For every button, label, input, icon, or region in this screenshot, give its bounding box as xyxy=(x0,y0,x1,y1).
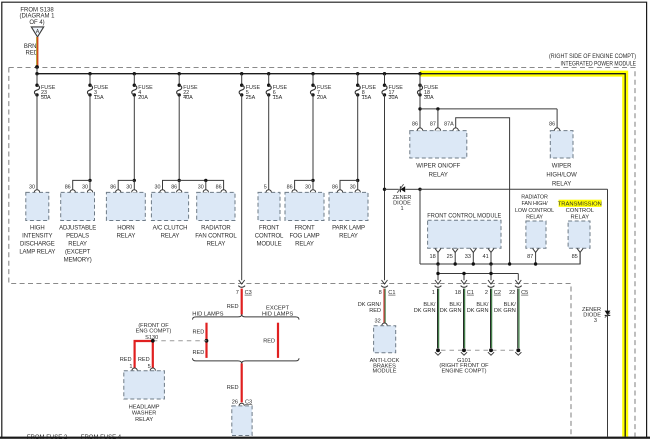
wire fuse 17 down xyxy=(384,95,386,280)
label BLK/DK GRN 2 xyxy=(440,302,462,314)
label RED (hid upper) xyxy=(192,330,204,336)
svg-text:DK GRN: DK GRN xyxy=(440,308,462,314)
wire RED except-hid branch xyxy=(277,323,279,358)
node: bus tap for fuse 4 xyxy=(133,72,136,75)
svg-text:RED: RED xyxy=(227,304,239,310)
wire to front fog lamp relay pin 30 xyxy=(312,180,314,190)
svg-text:32: 32 xyxy=(374,319,380,325)
svg-text:RELAY: RELAY xyxy=(68,241,87,247)
svg-text:(EXCEPT: (EXCEPT xyxy=(65,249,91,255)
svg-text:25A: 25A xyxy=(246,95,256,101)
front control module pin 18 xyxy=(429,248,441,264)
module: front control module xyxy=(427,213,501,249)
wire fuse 18 down to wiper on/off relay pin 86 xyxy=(419,74,421,128)
svg-text:OF 4): OF 4) xyxy=(29,20,44,26)
label zener diode 1 xyxy=(393,195,412,212)
node: bus tap for fuse 18 xyxy=(418,72,421,75)
svg-text:HID LAMPS: HID LAMPS xyxy=(262,311,293,317)
node: bus tap for fuse 8 xyxy=(356,72,359,75)
svg-text:(DIAGRAM 1: (DIAGRAM 1 xyxy=(19,14,55,20)
label FROM S138 (DIAGRAM 1 OF 4) xyxy=(19,7,55,26)
wire RED hid-lamps branch xyxy=(205,323,207,358)
label RED (bottom) xyxy=(227,385,239,391)
wire to park lamp relay pin 30 xyxy=(357,180,359,190)
bottom border line xyxy=(0,437,650,439)
svg-text:C1: C1 xyxy=(388,290,395,296)
wire BLK/DK GRN ground 1 xyxy=(437,289,438,348)
svg-text:41: 41 xyxy=(482,254,488,260)
wire branch to radiator fan control relay xyxy=(179,180,223,190)
svg-text:INTEGRATED POWER MODULE: INTEGRATED POWER MODULE xyxy=(561,60,637,67)
fuse 7 (20A) xyxy=(310,84,331,102)
node: bus1 junction at x=535.6 xyxy=(534,262,537,265)
front control module pin 25 xyxy=(447,248,459,264)
wire bus to fuse 23 xyxy=(36,74,38,86)
svg-text:RELAY: RELAY xyxy=(135,417,153,423)
svg-text:20A: 20A xyxy=(138,95,148,101)
fuse 3 (15A) xyxy=(87,84,108,102)
wire branch to adjustable pedals relay pin 86 xyxy=(73,180,90,190)
svg-text:RELAY: RELAY xyxy=(161,233,180,239)
wire bus to fuse 22 xyxy=(178,74,180,86)
wire zener line left segment xyxy=(385,188,399,190)
wire fuse 8 down xyxy=(357,95,359,180)
node: bus1 junction at x=455.2 xyxy=(454,262,457,265)
node: bus tap for fuse 6 xyxy=(267,72,270,75)
svg-text:20A: 20A xyxy=(317,95,327,101)
svg-text:FAN CONTROL: FAN CONTROL xyxy=(195,233,237,239)
wire RED to connector 26 C3 xyxy=(241,363,243,402)
wire to horn relay pin 30 xyxy=(133,180,135,190)
node: bus tap for fuse 23 xyxy=(35,72,38,75)
svg-text:C1: C1 xyxy=(467,290,474,296)
svg-text:C5: C5 xyxy=(521,290,528,296)
wire branch to park lamp relay pin 86 xyxy=(340,180,358,190)
svg-text:C3: C3 xyxy=(245,399,252,405)
node: junction fuse 18 feed at wiper row xyxy=(418,107,421,110)
svg-text:RED: RED xyxy=(138,357,150,363)
svg-text:RELAY: RELAY xyxy=(552,182,571,188)
wire RED splice to headlamp washer relay xyxy=(135,341,153,369)
fuse 4 (20A) xyxy=(132,84,153,102)
label RED (top) xyxy=(227,304,239,310)
wire zener line to fuse 18 branch xyxy=(405,188,420,190)
svg-text:25: 25 xyxy=(447,254,453,260)
svg-text:RELAY: RELAY xyxy=(295,241,314,247)
svg-text:40A: 40A xyxy=(183,95,193,101)
svg-text:CONTROL: CONTROL xyxy=(255,233,284,239)
ground symbol G101 #1 xyxy=(435,348,441,355)
wire fuse 7 down xyxy=(312,95,314,180)
wire to adjustable pedals relay pin 30 xyxy=(89,180,91,190)
svg-text:RED: RED xyxy=(192,350,204,356)
wire DK GRN/RED to anti-lock brakes module xyxy=(384,289,385,324)
svg-text:87: 87 xyxy=(430,121,436,127)
svg-text:86: 86 xyxy=(171,184,177,190)
svg-text:C3: C3 xyxy=(245,290,252,296)
front control module pin 33 xyxy=(465,248,477,264)
node: bus tap for fuse 3 xyxy=(88,72,91,75)
node: bus1 junction at x=509.6 xyxy=(508,262,511,265)
svg-text:INTENSITY: INTENSITY xyxy=(22,233,52,239)
ground symbol G101 #2 xyxy=(461,348,467,355)
node: splice on hid lamps branch xyxy=(205,339,209,343)
svg-text:22: 22 xyxy=(509,290,515,296)
svg-text:8: 8 xyxy=(379,290,382,296)
svg-text:HID LAMPS: HID LAMPS xyxy=(192,311,223,317)
wire branch to front fog lamp relay pin 86 xyxy=(295,180,313,190)
wire bus to fuse 7 xyxy=(312,74,314,86)
svg-text:(RIGHT SIDE OF ENGINE COMPT): (RIGHT SIDE OF ENGINE COMPT) xyxy=(549,53,636,60)
relay: park lamp relay xyxy=(329,184,368,239)
svg-text:1: 1 xyxy=(400,206,403,212)
svg-text:PARK LAMP: PARK LAMP xyxy=(332,225,365,231)
svg-text:HIGH/LOW: HIGH/LOW xyxy=(546,173,577,179)
svg-text:26: 26 xyxy=(232,399,238,405)
svg-text:87: 87 xyxy=(527,254,533,260)
svg-text:RED: RED xyxy=(369,308,381,314)
wire fuse 22 down xyxy=(178,95,180,180)
svg-text:RED: RED xyxy=(263,338,275,344)
svg-text:WASHER: WASHER xyxy=(132,411,156,417)
svg-text:30A: 30A xyxy=(424,95,434,101)
svg-text:A/C CLUTCH: A/C CLUTCH xyxy=(153,225,188,231)
svg-text:ENGINE COMPT): ENGINE COMPT) xyxy=(441,368,486,374)
wire fuse 18 branch down to module bus xyxy=(419,189,421,264)
svg-text:30: 30 xyxy=(82,184,88,190)
svg-text:30A: 30A xyxy=(389,95,399,101)
fuse 18 (30A) xyxy=(417,84,438,102)
label G101 (RIGHT FRONT OF ENGINE COMPT) xyxy=(439,358,489,375)
label zener diode 3 xyxy=(582,307,601,324)
relay: A/C clutch relay xyxy=(151,184,188,239)
svg-text:WIPER: WIPER xyxy=(552,164,572,170)
fuse 22 (40A) xyxy=(177,84,198,102)
svg-text:87A: 87A xyxy=(444,121,454,127)
svg-text:MODULE: MODULE xyxy=(257,241,282,247)
wire to A/C clutch relay pin 86 xyxy=(178,180,180,190)
svg-text:86: 86 xyxy=(110,184,116,190)
svg-text:18: 18 xyxy=(429,254,435,260)
svg-text:86: 86 xyxy=(332,184,338,190)
label RED (washer pin 1) xyxy=(120,357,132,363)
svg-text:86: 86 xyxy=(549,121,555,127)
svg-text:HORN: HORN xyxy=(117,225,134,231)
wire RED from connector 7 C3 xyxy=(241,289,243,315)
svg-text:5: 5 xyxy=(264,184,267,190)
wire branch to horn relay pin 86 xyxy=(118,180,134,190)
relay: adjustable pedals relay xyxy=(59,184,96,263)
ground symbol G101 #3 xyxy=(488,348,494,355)
wire fuse 3 down xyxy=(89,95,91,180)
svg-text:HIGH: HIGH xyxy=(30,225,45,231)
svg-text:33: 33 xyxy=(465,254,471,260)
label BLK/DK GRN 4 xyxy=(494,302,516,314)
node: junction fuse 17 at zener line xyxy=(383,188,386,191)
relay: wiper high/low relay xyxy=(546,121,577,187)
svg-text:86: 86 xyxy=(216,184,222,190)
svg-text:CONTROL: CONTROL xyxy=(566,208,595,214)
svg-text:TRANSMISSION: TRANSMISSION xyxy=(558,202,602,208)
wire BLK/DK GRN ground 4 xyxy=(518,289,519,348)
node: junction on fuse 4 feed xyxy=(133,179,136,182)
svg-text:FRONT: FRONT xyxy=(259,225,280,231)
dashed splice tie S130 xyxy=(153,340,207,342)
wire bus to fuse 17 xyxy=(384,74,386,86)
connector exit 18 C1 xyxy=(455,280,474,296)
svg-text:50A: 50A xyxy=(41,95,51,101)
wire to radiator fan control relay pin 30 xyxy=(205,180,207,190)
label RED (except hid) xyxy=(263,338,275,344)
relay: headlamp washer relay xyxy=(124,364,165,423)
label BRN/RED xyxy=(24,44,39,56)
svg-text:WIPER ON/OFF: WIPER ON/OFF xyxy=(416,164,460,170)
label (FRONT OF ENG COMPT) S130 xyxy=(136,323,172,341)
svg-text:MODULE: MODULE xyxy=(373,369,397,375)
wire bus to fuse 6 xyxy=(268,74,270,86)
module ground bus 1 xyxy=(420,252,580,264)
fuse 8 (15A) xyxy=(355,84,376,102)
svg-text:FAN HIGH/: FAN HIGH/ xyxy=(521,201,548,207)
svg-text:PEDALS: PEDALS xyxy=(66,233,89,239)
svg-text:RED: RED xyxy=(192,330,204,336)
label BLK/DK GRN 1 xyxy=(414,302,436,314)
wire to wiper high/low relay pin 86 xyxy=(556,109,558,128)
node: BRN/RED entry splice on boundary xyxy=(35,65,39,69)
wire fuse 23 to HID relay pin 30 xyxy=(36,95,38,190)
svg-text:RELAY: RELAY xyxy=(526,214,543,220)
node: bus2 junction 3 xyxy=(489,272,492,275)
ground tie dashed line xyxy=(441,349,515,351)
wire zener line right segment to right drop xyxy=(420,188,608,190)
svg-text:15A: 15A xyxy=(362,95,372,101)
svg-text:RELAY: RELAY xyxy=(117,233,136,239)
svg-text:RELAY: RELAY xyxy=(429,173,448,179)
svg-text:DIODE: DIODE xyxy=(583,313,601,319)
svg-text:15A: 15A xyxy=(273,95,283,101)
svg-text:RADIATOR: RADIATOR xyxy=(521,195,548,201)
label EXCEPT HID LAMPS xyxy=(262,306,293,318)
label RED (washer pin 5) xyxy=(138,357,150,363)
svg-text:FROM S138: FROM S138 xyxy=(20,7,54,13)
wire fuse 5 down to exit 7 C3 xyxy=(241,95,243,280)
node: junction fuse 18 branch on zener line xyxy=(418,188,421,191)
label DK GRN/RED xyxy=(358,302,382,314)
node: junction on fuse 8 feed xyxy=(356,179,359,182)
wire BLK/DK GRN ground 3 xyxy=(490,289,491,348)
svg-text:86: 86 xyxy=(412,121,418,127)
connector exit 7 C3 xyxy=(236,280,252,296)
wire bus to fuse 8 xyxy=(357,74,359,86)
wire wiper on/off pin 87A to ground bus xyxy=(456,118,510,264)
svg-text:FOG LAMP: FOG LAMP xyxy=(289,233,319,239)
svg-text:85: 85 xyxy=(572,254,578,260)
node: bus2 junction 2 xyxy=(462,272,465,275)
radiator fan high/low relay pin 87 xyxy=(527,248,539,264)
relay: high intensity discharge lamp relay xyxy=(19,184,55,255)
wire right drop to page bottom xyxy=(607,189,609,436)
brace top (splice options) xyxy=(193,314,300,319)
label RED (hid lower) xyxy=(192,350,204,356)
node: junction on fuse 7 feed xyxy=(311,179,314,182)
svg-text:30: 30 xyxy=(198,184,204,190)
svg-text:FRONT CONTROL MODULE: FRONT CONTROL MODULE xyxy=(427,213,501,220)
svg-text:DK GRN: DK GRN xyxy=(494,308,516,314)
svg-text:LAMP RELAY: LAMP RELAY xyxy=(19,249,55,255)
svg-text:RELAY: RELAY xyxy=(207,241,226,247)
svg-text:FRONT: FRONT xyxy=(294,225,315,231)
fuse 5 (25A) xyxy=(239,84,260,102)
svg-text:DK GRN: DK GRN xyxy=(467,308,489,314)
svg-text:3: 3 xyxy=(594,318,597,324)
svg-text:30: 30 xyxy=(305,184,311,190)
connector exit 2 C2 xyxy=(485,280,501,296)
front control module pin 41 xyxy=(482,248,494,264)
header label (RIGHT SIDE OF ENGINE COMPT) xyxy=(549,53,636,60)
svg-text:RED: RED xyxy=(120,357,132,363)
svg-text:30: 30 xyxy=(155,184,161,190)
relay: horn relay xyxy=(106,184,145,239)
svg-text:HEADLAMP: HEADLAMP xyxy=(129,404,160,410)
relay: transmission control relay xyxy=(558,200,602,249)
node: junction on fuse 22 feed xyxy=(178,179,181,182)
node: bus1 junction at x=491 xyxy=(489,262,492,265)
fuse 17 (30A) xyxy=(382,84,403,102)
wire fuse 4 down xyxy=(133,95,135,180)
svg-text:MEMORY): MEMORY) xyxy=(64,257,92,263)
node: bus1 junction at x=438 xyxy=(436,262,439,265)
svg-text:LOW CONTROL: LOW CONTROL xyxy=(515,208,554,214)
svg-text:86: 86 xyxy=(65,184,71,190)
connector 26 C3 on module xyxy=(232,399,252,406)
svg-text:DK GRN: DK GRN xyxy=(414,308,436,314)
wire BRN/RED from triangle A to IPM xyxy=(37,37,38,67)
node: bus tap for fuse 17 xyxy=(383,72,386,75)
connector exit 22 C5 xyxy=(509,280,528,296)
svg-text:RELAY: RELAY xyxy=(339,233,358,239)
svg-text:30: 30 xyxy=(350,184,356,190)
connector exit 1 xyxy=(432,280,442,296)
svg-text:RADIATOR: RADIATOR xyxy=(201,225,231,231)
svg-text:1: 1 xyxy=(432,290,435,296)
module ground bus 2 xyxy=(438,264,518,280)
svg-text:RELAY: RELAY xyxy=(571,215,590,221)
bus wire (fuse supply rail) xyxy=(37,74,625,437)
svg-text:RED: RED xyxy=(227,385,239,391)
label FROM FUSE 2 (cut off) xyxy=(27,435,68,439)
module: anti-lock brakes module pin 32 xyxy=(370,319,400,375)
label FROM FUSE 4 (cut off) xyxy=(81,435,122,439)
svg-text:15A: 15A xyxy=(94,95,104,101)
transmission control relay pin 85 xyxy=(572,248,584,264)
wire to wiper on/off relay pin 87 xyxy=(437,109,439,128)
node: splice S130 xyxy=(151,339,155,343)
wire branch to A/C clutch relay pin 30 xyxy=(163,180,180,190)
svg-text:30: 30 xyxy=(126,184,132,190)
wire BLK/DK GRN ground 2 xyxy=(463,289,464,348)
label BLK/DK GRN 3 xyxy=(467,302,489,314)
fuse 23 (50A) xyxy=(34,84,55,102)
relay: radiator fan high/low control relay xyxy=(515,195,554,249)
node: junction on fuse 3 feed xyxy=(88,179,91,182)
wire bus to fuse 18 xyxy=(419,74,421,86)
yellow highlight on bus wire xyxy=(420,74,625,437)
fuse 6 (15A) xyxy=(266,84,287,102)
ground symbol G101 #4 xyxy=(515,348,521,355)
wire entry stub to bus xyxy=(36,67,38,74)
wire wiper feed horizontal xyxy=(420,108,557,110)
node: bus tap for fuse 7 xyxy=(311,72,314,75)
off-page connector triangle A xyxy=(31,27,43,37)
connector exit 8 C1 xyxy=(379,280,396,296)
label HID LAMPS xyxy=(192,311,223,317)
node: bus1 junction at x=473.3 xyxy=(472,262,475,265)
node: junction to wiper on/off pin 87 xyxy=(436,107,439,110)
node: bus tap for fuse 22 xyxy=(178,72,181,75)
wire bus to fuse 4 xyxy=(133,74,135,86)
brace bottom (splice options) xyxy=(193,358,300,363)
header label INTEGRATED POWER MODULE xyxy=(561,60,637,67)
relay: wiper on/off relay xyxy=(410,121,467,178)
svg-text:C2: C2 xyxy=(494,290,501,296)
svg-text:30: 30 xyxy=(29,184,35,190)
module: front control module (pin 5) xyxy=(255,184,284,247)
svg-text:ADJUSTABLE: ADJUSTABLE xyxy=(59,225,96,231)
zener diode 3 xyxy=(605,311,611,318)
svg-text:86: 86 xyxy=(287,184,293,190)
relay: front fog lamp relay xyxy=(285,184,324,247)
svg-text:7: 7 xyxy=(236,290,239,296)
svg-text:18: 18 xyxy=(455,290,461,296)
svg-text:ENG COMPT): ENG COMPT) xyxy=(136,328,172,334)
module at connector 26 C3 (cut off) xyxy=(232,406,252,436)
wire bus to fuse 5 xyxy=(241,74,243,86)
svg-text:2: 2 xyxy=(485,290,488,296)
wire fuse 6 to front control module pin 5 xyxy=(268,95,270,190)
relay: radiator fan control relay xyxy=(195,184,237,247)
node: bus2 junction 1 xyxy=(436,272,439,275)
zener diode 1 xyxy=(397,184,405,193)
svg-text:DISCHARGE: DISCHARGE xyxy=(20,241,55,247)
node: bus tap for fuse 5 xyxy=(240,72,243,75)
node: junction radiator fan control pin 30 branch xyxy=(204,179,207,182)
wire bus to fuse 3 xyxy=(89,74,91,86)
